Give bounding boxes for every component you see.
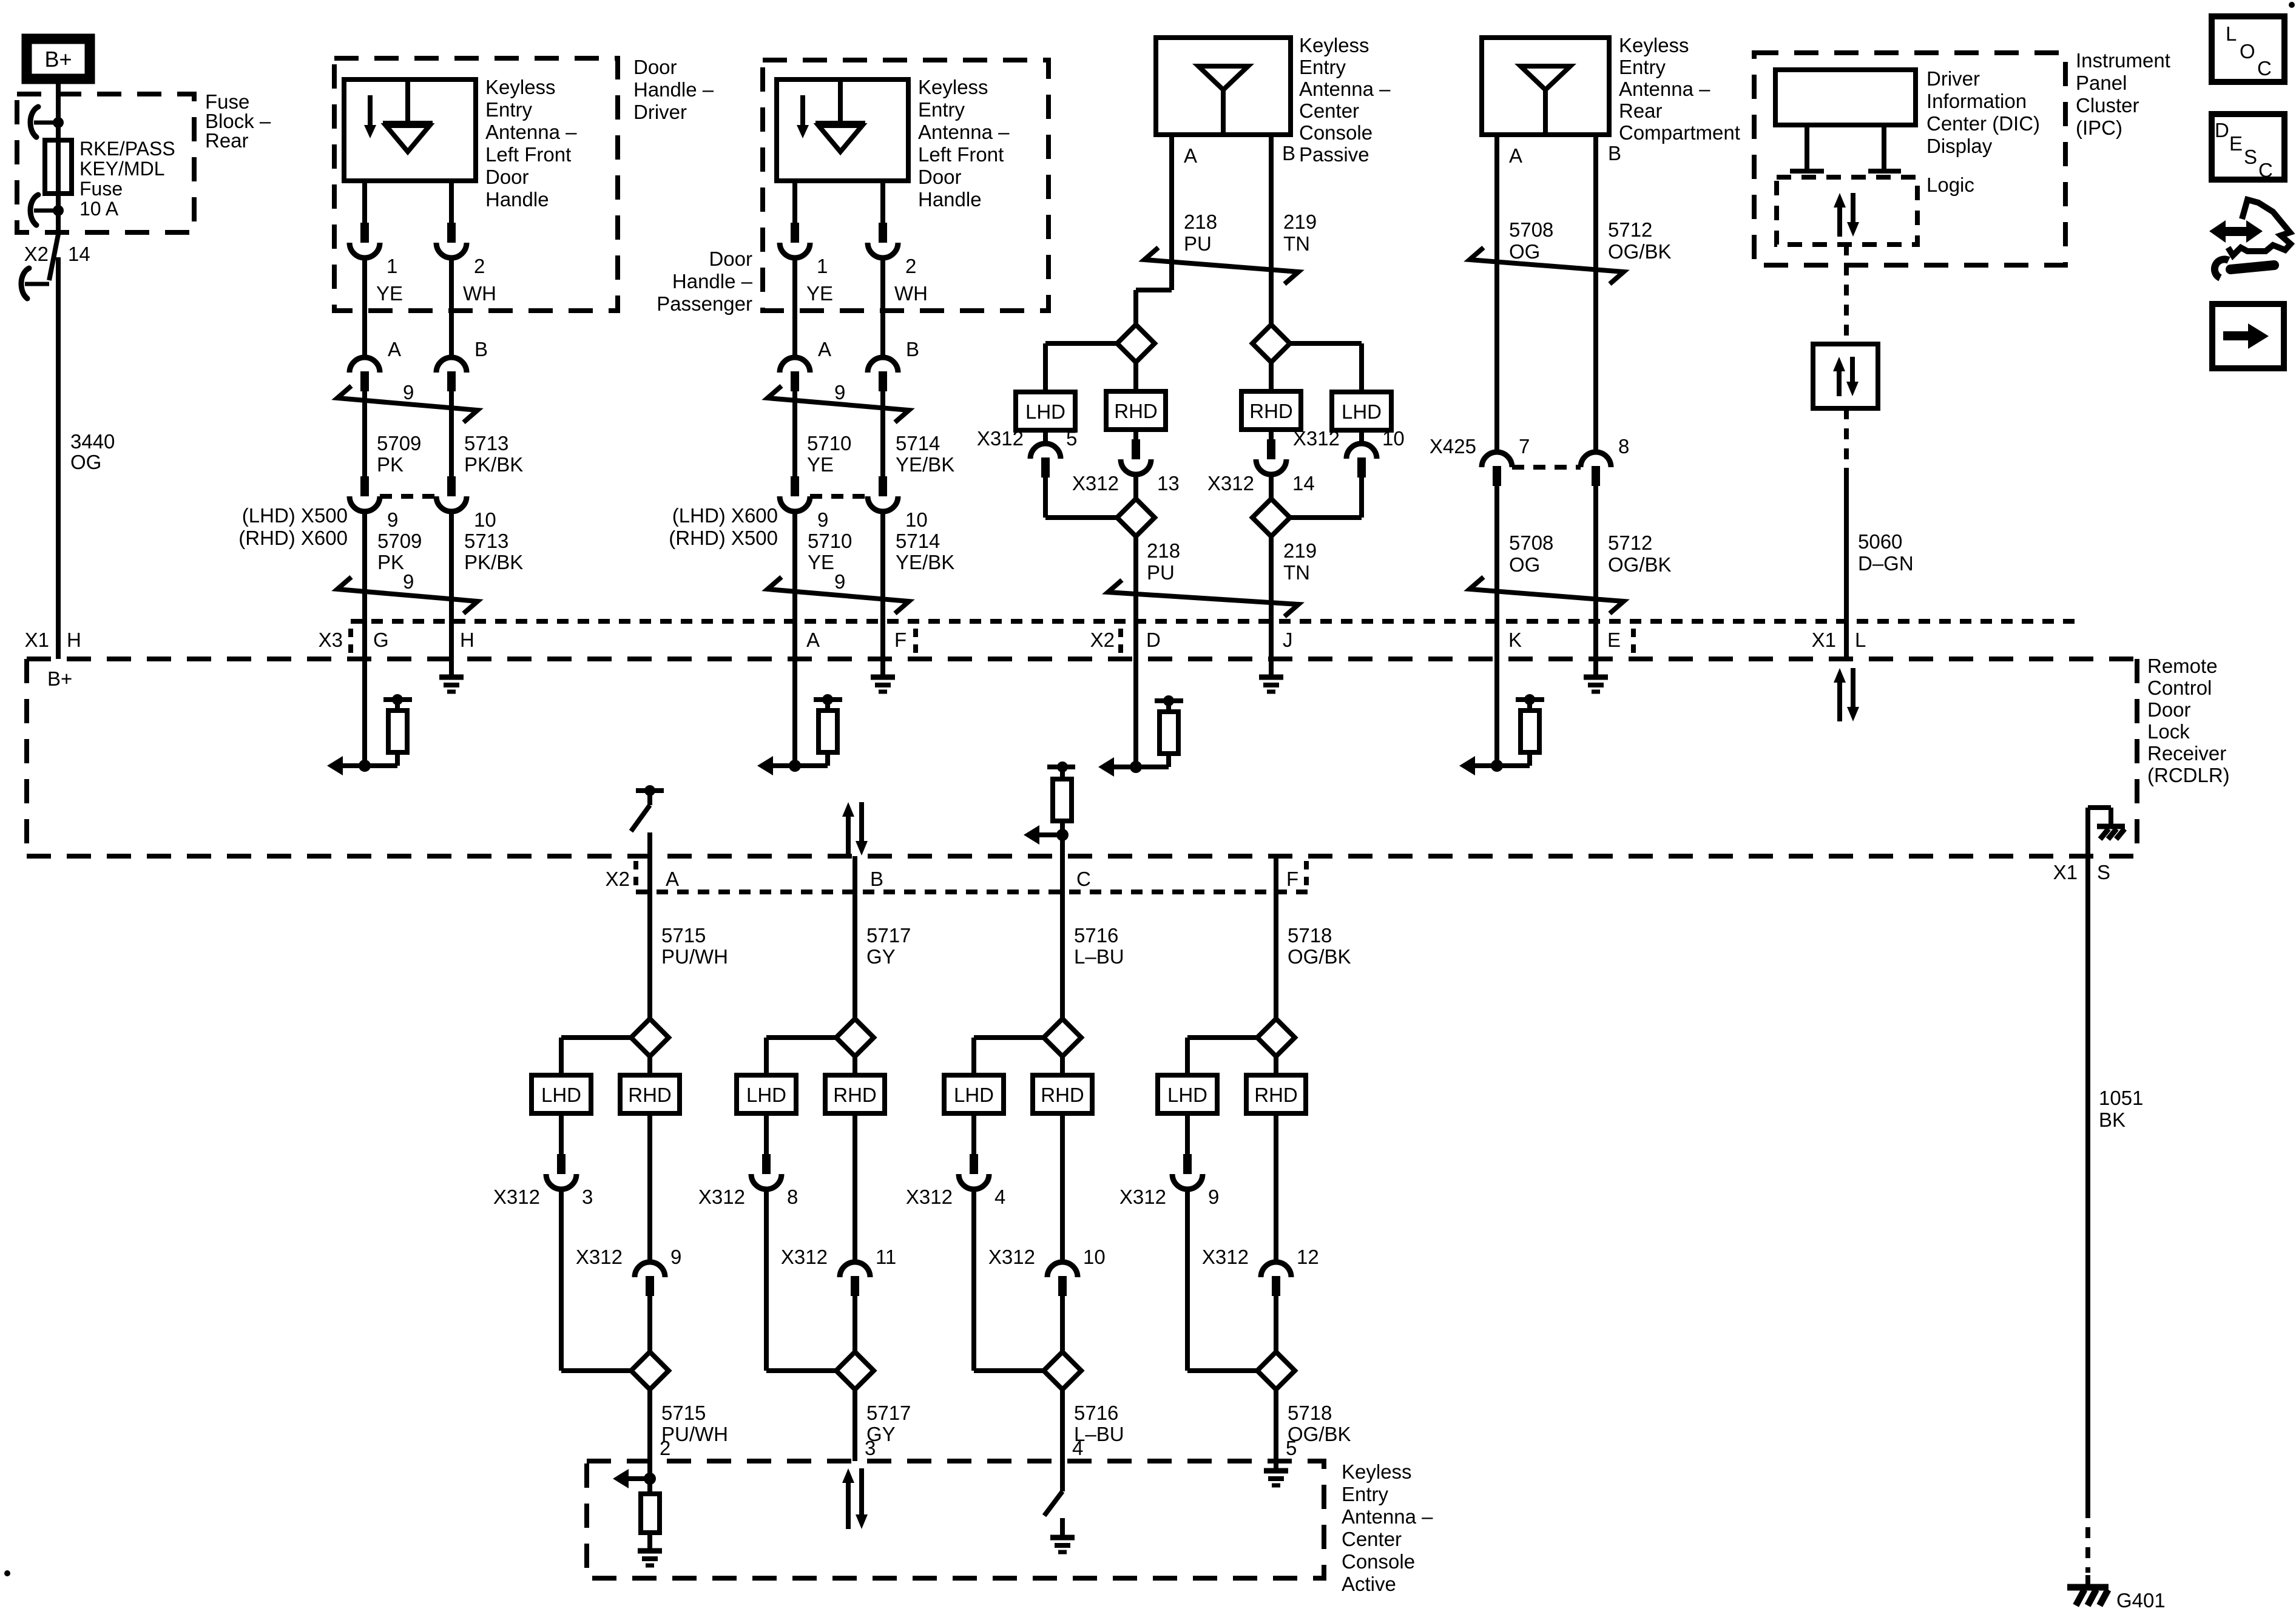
serial data arrows (pin 3 internal) bbox=[846, 1480, 851, 1529]
connector face dashed line bbox=[380, 494, 436, 499]
wire 5712 OG/BK from pin B (rear) bbox=[1593, 135, 1598, 452]
svg-text:8: 8 bbox=[787, 1186, 798, 1208]
wire A into RCDLR bbox=[792, 659, 797, 766]
svg-text:Entry: Entry bbox=[485, 98, 533, 121]
wire G into RCDLR bbox=[362, 659, 367, 766]
wire 744 WH segment bbox=[449, 257, 454, 357]
resistor (internal, RCDLR) bbox=[383, 697, 412, 702]
wire 5708 OG from pin A (rear) bbox=[1494, 135, 1499, 452]
signal arrow (to receiver) bbox=[1471, 763, 1497, 768]
svg-text:Keyless: Keyless bbox=[1619, 34, 1689, 56]
in-line connector X312 pin 9 (LHD) bbox=[1185, 1113, 1190, 1154]
svg-text:S: S bbox=[2097, 861, 2110, 883]
svg-text:X312: X312 bbox=[576, 1246, 623, 1268]
merge diamond (5716) bbox=[1044, 1352, 1081, 1389]
connector joint A (passenger) bbox=[780, 357, 810, 373]
connector strip X3 dotted line bbox=[351, 619, 2080, 624]
ground symbol (pin 5) bbox=[1264, 1468, 1288, 1474]
resistor (internal, RCDLR) bbox=[814, 697, 842, 702]
svg-text:B: B bbox=[1282, 142, 1295, 164]
merge diamond (5715) bbox=[631, 1352, 669, 1389]
svg-text:(IPC): (IPC) bbox=[2076, 116, 2122, 139]
wire to LHD branch bbox=[974, 1035, 1044, 1040]
wire 1310 YE segment bbox=[792, 257, 797, 357]
svg-text:PK: PK bbox=[377, 551, 404, 573]
svg-text:Active: Active bbox=[1342, 1573, 1396, 1595]
svg-text:Door: Door bbox=[633, 56, 677, 78]
connector joint pin 1 (driver) bbox=[360, 223, 369, 243]
connector joint B (driver) bbox=[436, 357, 467, 373]
svg-text:X425: X425 bbox=[1430, 435, 1476, 457]
connector joint pin 2 (driver) bbox=[447, 223, 456, 243]
wire fuse to connector X2-14 bbox=[56, 194, 61, 234]
svg-text:F: F bbox=[1286, 868, 1298, 890]
switch symbol (pin 4) bbox=[1044, 1491, 1062, 1516]
svg-text:Driver: Driver bbox=[1926, 67, 1980, 90]
svg-text:5060: 5060 bbox=[1858, 530, 1902, 553]
svg-text:X312: X312 bbox=[1202, 1246, 1249, 1268]
svg-text:B: B bbox=[474, 338, 488, 360]
wire K into RCDLR bbox=[1494, 659, 1499, 766]
svg-text:Compartment: Compartment bbox=[1619, 121, 1740, 144]
svg-text:OG: OG bbox=[70, 451, 101, 473]
svg-text:Handle: Handle bbox=[918, 188, 982, 211]
svg-text:Antenna –: Antenna – bbox=[1342, 1505, 1433, 1528]
variant box LHD bbox=[1016, 392, 1075, 430]
svg-text:B+: B+ bbox=[47, 667, 72, 690]
serial data arrows (RCDLR internal) bbox=[1837, 680, 1842, 721]
wire 5717 GY (upper) bbox=[853, 856, 857, 1019]
svg-text:LHD: LHD bbox=[1342, 400, 1382, 423]
wire 5714 YE/BK lower bbox=[880, 511, 885, 659]
svg-text:LHD: LHD bbox=[1025, 400, 1065, 423]
wire 5708 OG lower bbox=[1494, 485, 1499, 659]
icon diagnostic (arrow + wrench) bbox=[2209, 220, 2263, 243]
dashed box Keyless Entry Antenna - Center Console Active bbox=[587, 1461, 1324, 1578]
svg-text:Logic: Logic bbox=[1926, 174, 1974, 196]
svg-text:Instrument: Instrument bbox=[2076, 49, 2170, 72]
wire to LHD branch bbox=[766, 1035, 836, 1040]
switch symbol (output A internal) bbox=[636, 788, 664, 793]
option slash 9 (driver lower) bbox=[337, 577, 478, 613]
option slash (rear upper) bbox=[1470, 248, 1624, 284]
serial data wire (dashed) logic to gateway bbox=[1844, 245, 1849, 343]
signal arrow (output C) bbox=[1036, 832, 1062, 837]
in-line connector X312 pin 3 (LHD) bbox=[559, 1113, 564, 1154]
svg-text:A: A bbox=[806, 629, 820, 651]
wire pin 4 into active antenna bbox=[1060, 1461, 1065, 1491]
wire RHD to merge diamond bbox=[1133, 474, 1138, 499]
internal ground path (pin S) bbox=[2085, 808, 2090, 856]
svg-text:C: C bbox=[2258, 159, 2273, 181]
wire B+ to fuse bbox=[56, 81, 61, 141]
connector joint A (driver) bbox=[349, 357, 380, 373]
svg-text:LHD: LHD bbox=[954, 1084, 994, 1106]
svg-text:5709: 5709 bbox=[377, 530, 422, 552]
signal arrow (pin 2) bbox=[625, 1476, 650, 1481]
split diamond (5716) bbox=[1044, 1019, 1081, 1056]
svg-text:3440: 3440 bbox=[70, 430, 115, 453]
svg-text:2: 2 bbox=[905, 255, 916, 277]
connector face dashed line bbox=[810, 494, 868, 499]
svg-text:B: B bbox=[906, 338, 919, 360]
serial data arrows (logic) bbox=[1837, 205, 1842, 237]
svg-text:9: 9 bbox=[817, 508, 828, 531]
svg-text:1: 1 bbox=[387, 255, 397, 277]
merge diamond (5717) bbox=[836, 1352, 874, 1389]
in-line connector X312 pin 8 (LHD) bbox=[764, 1113, 769, 1154]
wire 5709 PK upper bbox=[362, 391, 367, 479]
variant box RHD bbox=[1106, 391, 1166, 430]
svg-text:Antenna –: Antenna – bbox=[1619, 78, 1710, 100]
wire 219 TN from pin B (console) bbox=[1269, 135, 1274, 362]
connector face dashed line (X425) bbox=[1512, 465, 1581, 470]
svg-text:X312: X312 bbox=[1207, 472, 1254, 495]
svg-text:X312: X312 bbox=[493, 1186, 540, 1208]
svg-text:Fuse: Fuse bbox=[79, 178, 123, 200]
wire RHD to merge diamond bbox=[1274, 1295, 1278, 1352]
variant box LHD (219) bbox=[1332, 392, 1391, 430]
svg-text:Passenger: Passenger bbox=[657, 292, 752, 315]
svg-text:Driver: Driver bbox=[633, 101, 687, 123]
wire 5717 GY (lower) bbox=[853, 1389, 857, 1461]
svg-text:PU/WH: PU/WH bbox=[661, 945, 728, 968]
svg-text:4: 4 bbox=[994, 1186, 1005, 1208]
svg-text:3: 3 bbox=[582, 1186, 593, 1208]
svg-text:218: 218 bbox=[1147, 539, 1180, 562]
svg-text:10: 10 bbox=[474, 508, 496, 531]
ground symbol (pin F internal) bbox=[880, 659, 885, 676]
svg-text:12: 12 bbox=[1297, 1246, 1319, 1268]
in-line connector X500/X600 (driver, pin 10) bbox=[447, 476, 456, 496]
connector joint pin 2 (passenger) bbox=[879, 223, 887, 243]
component box Driver Information Center (DIC) Display bbox=[1775, 70, 1916, 125]
merge diamond (219 TN) bbox=[1252, 499, 1290, 536]
svg-text:5718: 5718 bbox=[1288, 924, 1332, 947]
wire to LHD box bbox=[1045, 341, 1117, 346]
chassis ground symbol (internal) bbox=[2097, 824, 2125, 829]
svg-text:TN: TN bbox=[1283, 232, 1310, 255]
svg-text:WH: WH bbox=[894, 282, 928, 305]
svg-text:G: G bbox=[373, 629, 389, 651]
svg-text:9: 9 bbox=[834, 381, 845, 403]
svg-text:OG: OG bbox=[1509, 553, 1540, 576]
terminal hook (fuse input) bbox=[34, 121, 58, 125]
in-line connector X312 pin 12 (RHD) bbox=[1274, 1113, 1278, 1262]
svg-text:S: S bbox=[2244, 146, 2257, 168]
ground symbol (pin J internal) bbox=[1269, 659, 1274, 676]
signal arrow (to receiver) bbox=[339, 763, 365, 768]
merge diamond (5718) bbox=[1257, 1352, 1295, 1389]
wire LHD to merge diamond bbox=[971, 1189, 976, 1371]
svg-text:Display: Display bbox=[1926, 135, 1993, 157]
option slash 9 (passenger lower) bbox=[768, 577, 909, 613]
svg-text:Antenna –: Antenna – bbox=[485, 121, 577, 143]
svg-text:14: 14 bbox=[68, 243, 90, 265]
in-line connector X600/X500 (passenger, pin 10) bbox=[879, 476, 887, 496]
svg-text:C: C bbox=[2257, 57, 2272, 79]
split diamond (5715) bbox=[631, 1019, 669, 1056]
wire pin 2 into active antenna bbox=[647, 1461, 652, 1479]
svg-text:5718: 5718 bbox=[1288, 1402, 1332, 1424]
wire RHD to merge diamond bbox=[1060, 1295, 1065, 1352]
DIC display legs bbox=[1805, 125, 1809, 171]
wire LHD to merge diamond bbox=[1185, 1189, 1190, 1371]
wire 1051 BK bbox=[2085, 856, 2090, 1507]
svg-text:10: 10 bbox=[905, 508, 928, 531]
connector separator bbox=[1631, 629, 1636, 654]
connector joint pin 1 (passenger) bbox=[791, 223, 799, 243]
svg-text:X312: X312 bbox=[1072, 472, 1119, 495]
power symbol B+ (battery feed) bbox=[27, 39, 90, 79]
svg-text:(LHD) X600: (LHD) X600 bbox=[672, 504, 778, 527]
svg-text:Handle –: Handle – bbox=[633, 78, 714, 101]
svg-text:9: 9 bbox=[403, 570, 414, 593]
svg-text:2: 2 bbox=[660, 1437, 670, 1459]
svg-text:7: 7 bbox=[1519, 435, 1530, 457]
svg-text:219: 219 bbox=[1283, 539, 1317, 562]
svg-text:5710: 5710 bbox=[808, 530, 852, 552]
icon box LOC bbox=[2212, 16, 2284, 82]
wire LHD to merge diamond bbox=[559, 1189, 564, 1371]
svg-text:YE: YE bbox=[807, 453, 834, 476]
fuse RKE/PASS KEY/MDL 10 A bbox=[56, 140, 61, 194]
in-line connector X312 pin 10 (RHD) bbox=[1060, 1113, 1065, 1262]
serial data arrows (gateway) bbox=[1837, 369, 1842, 396]
wire 3440 OG bbox=[56, 257, 61, 659]
resistor assy (output C internal) bbox=[1047, 765, 1075, 769]
wire antenna pin 2 (passenger) bbox=[880, 181, 885, 223]
wire to RHD branch bbox=[647, 1056, 652, 1075]
wire LHD to merge diamond (219) bbox=[1359, 477, 1364, 518]
svg-text:10 A: 10 A bbox=[79, 198, 119, 220]
junction node bbox=[1056, 829, 1069, 841]
in-line connector X312 pin 11 (RHD) bbox=[853, 1113, 857, 1262]
svg-text:X312: X312 bbox=[698, 1186, 745, 1208]
svg-text:5716: 5716 bbox=[1074, 924, 1118, 947]
junction node bbox=[359, 760, 371, 772]
antenna ground symbol (driver) bbox=[368, 95, 373, 126]
svg-text:RHD: RHD bbox=[1114, 400, 1158, 422]
svg-text:X2: X2 bbox=[24, 243, 49, 265]
svg-text:9: 9 bbox=[670, 1246, 681, 1268]
svg-text:4: 4 bbox=[1072, 1437, 1083, 1459]
wire antenna pin 1 (driver) bbox=[362, 181, 367, 223]
resistor (internal, RCDLR) bbox=[1516, 697, 1544, 702]
svg-text:Entry: Entry bbox=[1342, 1483, 1389, 1505]
svg-text:9: 9 bbox=[387, 508, 398, 531]
svg-text:10: 10 bbox=[1382, 427, 1405, 450]
ground symbol (pin E internal) bbox=[1593, 659, 1598, 676]
svg-text:5716: 5716 bbox=[1074, 1402, 1118, 1424]
wire 5060 D-GN bbox=[1844, 468, 1849, 659]
svg-text:Handle: Handle bbox=[485, 188, 549, 211]
svg-text:11: 11 bbox=[876, 1246, 896, 1268]
svg-text:5717: 5717 bbox=[866, 924, 911, 947]
svg-text:(RCDLR): (RCDLR) bbox=[2147, 764, 2230, 786]
svg-text:Center (DIC): Center (DIC) bbox=[1926, 112, 2040, 135]
variant box RHD bbox=[825, 1075, 885, 1113]
signal arrow (to receiver) bbox=[769, 763, 795, 768]
ground symbol (pin 4) bbox=[1050, 1535, 1075, 1541]
svg-text:5710: 5710 bbox=[807, 432, 851, 454]
wire 5712 OG/BK lower bbox=[1593, 485, 1598, 659]
svg-text:1051: 1051 bbox=[2099, 1087, 2143, 1109]
component box Keyless Entry Antenna - Left Front Door Handle (passenger) bbox=[777, 79, 908, 181]
svg-text:X2: X2 bbox=[606, 868, 630, 890]
wire to LHD branch bbox=[1187, 1035, 1257, 1040]
svg-text:Door: Door bbox=[485, 166, 529, 188]
svg-text:A: A bbox=[666, 868, 679, 890]
in-line connector X312 pin 13 (RHD) bbox=[1133, 430, 1138, 439]
signal arrow (to receiver) bbox=[1110, 765, 1136, 769]
svg-text:D: D bbox=[2215, 119, 2229, 141]
svg-text:RHD: RHD bbox=[1254, 1084, 1298, 1106]
svg-text:9: 9 bbox=[834, 570, 845, 593]
merge diamond (218 PU) bbox=[1117, 499, 1155, 536]
svg-text:Handle –: Handle – bbox=[672, 270, 753, 292]
svg-text:OG/BK: OG/BK bbox=[1608, 553, 1672, 576]
ground G401 bbox=[2067, 1584, 2109, 1591]
svg-text:8: 8 bbox=[1618, 435, 1629, 457]
svg-text:OG/BK: OG/BK bbox=[1608, 240, 1672, 263]
fuse block dashed box (Fuse Block - Rear) bbox=[17, 94, 194, 232]
in-line connector X312 pin 14 (RHD) bbox=[1269, 430, 1274, 439]
svg-text:(RHD) X600: (RHD) X600 bbox=[238, 527, 348, 549]
svg-text:YE: YE bbox=[376, 282, 403, 305]
svg-text:X312: X312 bbox=[906, 1186, 953, 1208]
wire LHD to merge diamond bbox=[764, 1189, 769, 1371]
svg-text:5713: 5713 bbox=[464, 432, 508, 454]
terminal hook (fuse output) bbox=[34, 209, 58, 213]
dashed box Instrument Panel Cluster (IPC) bbox=[1754, 53, 2065, 265]
svg-text:A: A bbox=[388, 338, 401, 360]
svg-text:3: 3 bbox=[865, 1437, 876, 1459]
svg-text:5712: 5712 bbox=[1608, 532, 1652, 554]
svg-text:K: K bbox=[1508, 629, 1522, 651]
wire 1051 BK dashed continuation bbox=[2085, 1507, 2090, 1573]
wire 218 PU to RCDLR bbox=[1133, 536, 1138, 659]
svg-text:PU: PU bbox=[1184, 232, 1212, 255]
connector separator bbox=[1304, 861, 1309, 887]
svg-text:E: E bbox=[2229, 132, 2243, 155]
resistor (active antenna) bbox=[647, 1479, 652, 1494]
svg-text:PK: PK bbox=[377, 453, 403, 476]
svg-text:(RHD) X500: (RHD) X500 bbox=[669, 527, 778, 549]
svg-text:Receiver: Receiver bbox=[2147, 742, 2226, 765]
svg-text:9: 9 bbox=[1208, 1186, 1219, 1208]
wire 5709 PK lower bbox=[362, 511, 367, 659]
svg-text:O: O bbox=[2240, 40, 2255, 62]
svg-text:RKE/PASS: RKE/PASS bbox=[79, 138, 175, 160]
wire to RHD branch bbox=[853, 1056, 857, 1075]
svg-text:5: 5 bbox=[1066, 427, 1077, 450]
svg-text:KEY/MDL: KEY/MDL bbox=[79, 158, 164, 180]
svg-text:Entry: Entry bbox=[918, 98, 965, 121]
svg-text:5712: 5712 bbox=[1608, 218, 1652, 241]
svg-text:RHD: RHD bbox=[833, 1084, 877, 1106]
svg-text:Antenna –: Antenna – bbox=[1299, 78, 1391, 100]
variant box LHD bbox=[532, 1075, 591, 1113]
svg-text:5715: 5715 bbox=[661, 924, 706, 947]
svg-text:Antenna –: Antenna – bbox=[918, 121, 1010, 143]
in-line connector X312 pin 4 (LHD) bbox=[971, 1113, 976, 1154]
svg-text:OG: OG bbox=[1509, 240, 1540, 263]
svg-text:5708: 5708 bbox=[1509, 218, 1553, 241]
serial data arrows (output B internal) bbox=[846, 814, 851, 856]
junction node bbox=[644, 1473, 656, 1485]
svg-text:5709: 5709 bbox=[377, 432, 421, 454]
svg-text:PK/BK: PK/BK bbox=[464, 453, 523, 476]
svg-text:Keyless: Keyless bbox=[1342, 1460, 1412, 1483]
in-line connector X425 pin 7 bbox=[1482, 452, 1512, 467]
wire 5713 PK/BK upper bbox=[449, 391, 454, 479]
svg-text:Cluster: Cluster bbox=[2076, 94, 2139, 116]
svg-text:X312: X312 bbox=[988, 1246, 1035, 1268]
split diamond (5718) bbox=[1257, 1019, 1295, 1056]
icon box DESC bbox=[2212, 114, 2284, 180]
wire antenna pin 1 (passenger) bbox=[792, 181, 797, 223]
svg-text:X1: X1 bbox=[2053, 861, 2078, 883]
wire to RHD branch bbox=[1274, 1056, 1278, 1075]
svg-text:Keyless: Keyless bbox=[1299, 34, 1369, 56]
junction node bbox=[1130, 761, 1142, 773]
antenna ground symbol (passenger) bbox=[800, 95, 805, 126]
svg-text:L: L bbox=[1855, 629, 1866, 651]
svg-text:TN: TN bbox=[1283, 561, 1310, 584]
wire to RHD box bbox=[1133, 362, 1138, 391]
svg-text:YE/BK: YE/BK bbox=[896, 551, 954, 573]
svg-text:WH: WH bbox=[463, 282, 496, 305]
svg-text:Entry: Entry bbox=[1619, 56, 1666, 78]
wire 5718 OG/BK (lower) bbox=[1274, 1389, 1278, 1461]
svg-text:A: A bbox=[818, 338, 831, 360]
variant box RHD bbox=[1246, 1075, 1306, 1113]
wire 219 TN to RCDLR bbox=[1269, 536, 1274, 659]
svg-text:X312: X312 bbox=[781, 1246, 828, 1268]
variant box LHD bbox=[737, 1075, 796, 1113]
wire RHD to merge diamond (219) bbox=[1269, 474, 1274, 499]
svg-text:14: 14 bbox=[1292, 472, 1315, 495]
svg-text:B+: B+ bbox=[44, 47, 72, 72]
wire D into RCDLR bbox=[1133, 659, 1138, 767]
connector joint B (passenger) bbox=[868, 357, 898, 373]
wire to RHD branch bbox=[1060, 1056, 1065, 1075]
svg-text:Door: Door bbox=[709, 248, 752, 270]
svg-text:X312: X312 bbox=[1119, 1186, 1166, 1208]
svg-text:Rear: Rear bbox=[1619, 100, 1663, 122]
svg-text:F: F bbox=[894, 629, 907, 651]
svg-text:H: H bbox=[460, 629, 474, 651]
component box Keyless Entry Antenna - Center Console Passive bbox=[1156, 38, 1291, 135]
svg-text:Keyless: Keyless bbox=[918, 76, 988, 98]
antenna symbol (console passive) bbox=[1198, 66, 1248, 90]
wire 5715 PU/WH (lower) bbox=[647, 1389, 652, 1461]
svg-text:Door: Door bbox=[918, 166, 962, 188]
svg-text:L: L bbox=[2226, 22, 2237, 45]
svg-text:Keyless: Keyless bbox=[485, 76, 556, 98]
svg-text:Information: Information bbox=[1926, 90, 2027, 112]
serial data gateway box bbox=[1813, 344, 1878, 408]
svg-text:Control: Control bbox=[2147, 677, 2212, 699]
svg-text:Door: Door bbox=[2147, 698, 2191, 721]
svg-text:Passive: Passive bbox=[1299, 143, 1369, 166]
svg-text:9: 9 bbox=[403, 381, 414, 403]
dashed box Logic bbox=[1777, 177, 1917, 245]
svg-text:A: A bbox=[1184, 144, 1197, 167]
wire 5710 YE lower bbox=[792, 511, 797, 659]
component box Remote Control Door Lock Receiver (RCDLR) bbox=[27, 657, 2137, 661]
